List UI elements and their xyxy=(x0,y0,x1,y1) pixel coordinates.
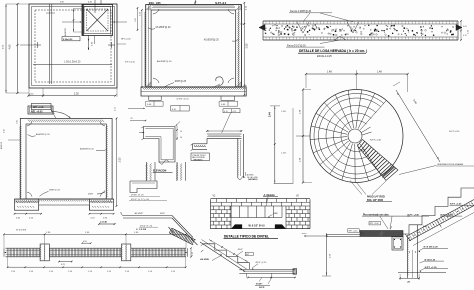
svg-text:ASØ3/8: ASØ3/8 xyxy=(0,141,3,149)
svg-text:N: 8 Ø 3/8: N: 8 Ø 3/8 xyxy=(16,230,27,232)
svg-text:0.20: 0.20 xyxy=(135,18,137,22)
svg-text:Ø1/4" @.20: Ø1/4" @.20 xyxy=(256,262,268,264)
svg-text:AS Ø3/8"@.20: AS Ø3/8"@.20 xyxy=(157,60,172,63)
svg-text:N.P.T. +2.40: N.P.T. +2.40 xyxy=(408,213,420,216)
svg-text:N.P.T. +2.40: N.P.T. +2.40 xyxy=(441,213,453,216)
svg-text:Ø3/8"@.25: Ø3/8"@.25 xyxy=(175,81,187,83)
svg-text:Ø 1/4 @.20: Ø 1/4 @.20 xyxy=(425,258,436,261)
svg-text:AS Ø3/8"@.20: AS Ø3/8"@.20 xyxy=(204,39,220,42)
svg-text:Ø3/8"@.25: Ø3/8"@.25 xyxy=(49,190,61,192)
svg-text:NPT +2.40: NPT +2.40 xyxy=(349,231,358,233)
svg-text:ORIENTACION DE GRADAS: ORIENTACION DE GRADAS xyxy=(437,163,464,166)
svg-text:Fierros 4 Ø3/8"@.30: Fierros 4 Ø3/8"@.30 xyxy=(290,10,312,13)
svg-text:NPT +0.05: NPT +0.05 xyxy=(33,107,44,109)
svg-text:W: 8 1/2" Ø 4.0: W: 8 1/2" Ø 4.0 xyxy=(249,225,266,228)
svg-text:Piso terminado en obra: Piso terminado en obra xyxy=(363,213,389,216)
svg-text:0.30x0.30: 0.30x0.30 xyxy=(63,39,73,41)
svg-text:N.F.P.: N.F.P. xyxy=(259,287,265,289)
svg-text:Ø 3/8" @.20: Ø 3/8" @.20 xyxy=(177,99,190,101)
svg-text:AS Ø3/8": AS Ø3/8" xyxy=(135,212,144,215)
svg-text:C: 1 Ø 3/8: C: 1 Ø 3/8 xyxy=(136,229,147,231)
svg-text:0.15: 0.15 xyxy=(463,35,467,37)
svg-text:ASØ3/8"@.20: ASØ3/8"@.20 xyxy=(36,133,50,136)
svg-text:ASØ3/8"@.20: ASØ3/8"@.20 xyxy=(80,148,94,151)
svg-text:N.P.T. +2.40: N.P.T. +2.40 xyxy=(450,203,462,206)
svg-text:4Ø: 4Ø xyxy=(246,254,249,256)
svg-text:DETALLE DE LOSA NERVADA ( h =: DETALLE DE LOSA NERVADA ( h = 20 cm. ) xyxy=(299,49,367,53)
svg-text:0.20: 0.20 xyxy=(17,120,19,124)
svg-text:N.P.T.+0.0: N.P.T.+0.0 xyxy=(215,2,227,5)
svg-text:4.60: 4.60 xyxy=(9,44,12,49)
svg-text:muro: muro xyxy=(302,232,306,235)
svg-text:N.P.T+0.20: N.P.T+0.20 xyxy=(449,131,460,133)
svg-text:0.15: 0.15 xyxy=(224,111,228,113)
svg-text:(VACIADO): (VACIADO) xyxy=(194,158,203,161)
svg-text:NEL +0.05: NEL +0.05 xyxy=(31,110,43,113)
svg-text:N.P.T+0.00: N.P.T+0.00 xyxy=(125,62,136,64)
svg-text:1.48: 1.48 xyxy=(377,70,382,73)
svg-text:2.30: 2.30 xyxy=(74,93,79,96)
svg-text:AS Ø3/8: AS Ø3/8 xyxy=(200,258,209,261)
svg-text:DETALLE TIPICO DE DINTEL: DETALLE TIPICO DE DINTEL xyxy=(224,235,269,239)
svg-text:ASØ3/8: ASØ3/8 xyxy=(64,28,67,36)
svg-text:0.20: 0.20 xyxy=(4,129,6,133)
svg-text:15: 15 xyxy=(180,131,182,133)
svg-text:10: 10 xyxy=(180,137,182,139)
svg-text:1.50x1.50x0.20: 1.50x1.50x0.20 xyxy=(64,61,81,64)
svg-text:Ø1/4": Ø1/4" xyxy=(160,213,165,215)
svg-text:A. Melado: A. Melado xyxy=(264,194,276,197)
svg-text:NPT+0.00: NPT+0.00 xyxy=(121,39,131,41)
svg-text:.25: .25 xyxy=(130,118,133,120)
svg-text:2.44: 2.44 xyxy=(269,112,272,117)
svg-text:Ø1/4": Ø1/4" xyxy=(238,249,244,251)
svg-text:0.25: 0.25 xyxy=(233,111,237,113)
svg-text:1.48: 1.48 xyxy=(327,70,332,73)
svg-text:NPT +2.40: NPT +2.40 xyxy=(370,223,379,225)
svg-text:0.05: 0.05 xyxy=(463,26,467,28)
svg-text:2.00: 2.00 xyxy=(246,43,249,48)
svg-text:L=0.40: L=0.40 xyxy=(100,221,108,224)
svg-text:ESCALA 1/25: ESCALA 1/25 xyxy=(317,55,332,58)
svg-text:(VACIADO): (VACIADO) xyxy=(248,178,258,181)
svg-text:N.P.T+2.40: N.P.T+2.40 xyxy=(370,140,382,142)
svg-text:Ø3/8": Ø3/8" xyxy=(88,193,94,195)
svg-text:AS Ø3/8"@.20: AS Ø3/8"@.20 xyxy=(155,26,171,29)
svg-text:Fierro Ø 1/2"@.30: Fierro Ø 1/2"@.30 xyxy=(287,44,306,47)
svg-text:2.00: 2.00 xyxy=(118,157,121,162)
